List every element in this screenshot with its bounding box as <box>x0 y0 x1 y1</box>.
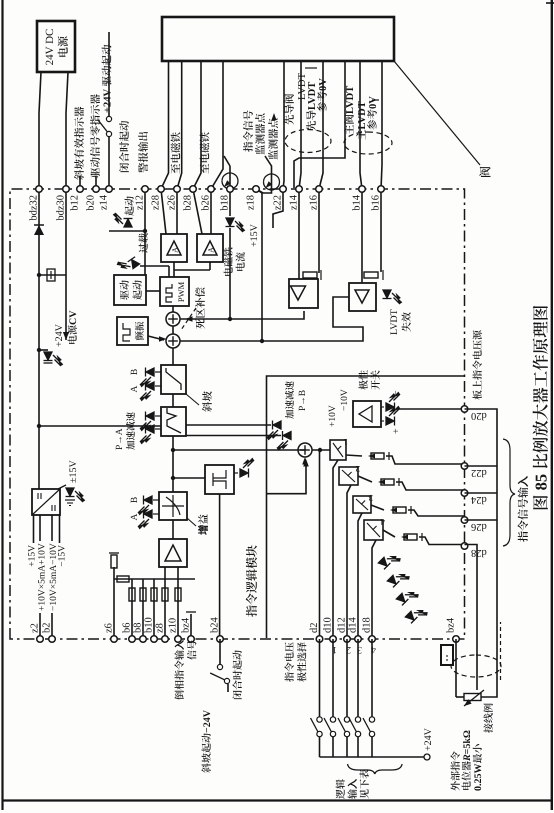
svg-text:b2: b2 <box>42 623 53 634</box>
svg-text:电源: 电源 <box>55 36 71 58</box>
terminal z14 (right edge) <box>106 186 113 193</box>
polarity summing junction <box>298 443 312 457</box>
svg-text:d24: d24 <box>470 494 487 505</box>
wire z12 to drive start box <box>144 189 146 275</box>
ramp label leader <box>186 394 199 405</box>
svg-text:b18: b18 <box>220 195 231 211</box>
logic input brace <box>347 764 402 774</box>
wire b26 to valve <box>211 61 223 189</box>
terminal b10 (left edge) <box>151 636 158 643</box>
svg-text:+24V: +24V <box>423 727 434 751</box>
PWM box <box>160 277 189 306</box>
+15V output stub <box>33 515 35 543</box>
wire z14 pilot LVDT to valve <box>299 61 301 189</box>
tick mark on pilot LVDT label wire <box>305 67 317 69</box>
terminal z10 (left edge) <box>175 636 182 643</box>
main LVDT input row b14 <box>361 189 363 283</box>
pot cable screen ellipse <box>451 655 501 677</box>
terminal bz4 (left edge) <box>453 636 460 643</box>
logic input switch row 1 <box>332 639 334 717</box>
-15V output stub <box>59 515 61 543</box>
terminal b14 (right edge) <box>359 186 366 193</box>
terminal b20 (right edge) <box>93 186 100 193</box>
op-amp 1 output network to d22 <box>346 455 362 456</box>
svg-text:z6: z6 <box>104 623 115 633</box>
z10 feedback row <box>177 567 179 639</box>
link amp to gain <box>172 520 174 539</box>
svg-text:颤振: 颤振 <box>132 321 146 341</box>
main feedback line to summer2 <box>180 297 363 341</box>
svg-text:指令逻辑模块: 指令逻辑模块 <box>243 545 260 617</box>
-10V output to b2 <box>51 613 53 639</box>
terminal bdz30 (right edge) <box>63 186 70 193</box>
svg-text:A: A <box>130 513 140 520</box>
logic input switch row 4 <box>371 639 373 717</box>
LVDT failure LED <box>383 290 402 304</box>
summing junction 2 (main loop) <box>166 334 180 348</box>
terminal b18 (right edge) <box>227 186 234 193</box>
status LED row 3 <box>396 586 419 609</box>
svg-text:z22: z22 <box>273 195 284 210</box>
status LED row 2 <box>387 568 410 591</box>
wire bdz32 to 24V supply <box>39 72 41 189</box>
svg-text:3: 3 <box>368 493 373 503</box>
terminal d18 (left edge) <box>369 636 376 643</box>
terminal b26 (right edge) <box>208 186 215 193</box>
svg-text:−15V: −15V <box>58 545 68 567</box>
hysteresis output to b24 <box>219 494 221 639</box>
accel-decel box P-A <box>161 407 186 436</box>
wire z28 to driver A <box>161 189 166 234</box>
svg-text:+15V: +15V <box>249 223 260 247</box>
wire b14 main LVDT to valve <box>360 61 362 189</box>
monitor point loop on z18 wire <box>256 156 272 193</box>
wire z22 to valve <box>283 61 284 189</box>
wire b28 to driver B <box>193 189 202 234</box>
svg-text:d14: d14 <box>348 617 359 634</box>
bus series resistor <box>117 576 129 582</box>
logic input switch row 3 <box>357 639 359 717</box>
svg-text:PWM: PWM <box>176 281 186 302</box>
svg-text:bdz32: bdz32 <box>29 195 40 221</box>
svg-text:信号: 信号 <box>184 640 199 660</box>
terminal z22 (right edge) <box>280 186 287 193</box>
svg-text:闭合时起动: 闭合时起动 <box>229 650 244 700</box>
terminal b28 (right edge) <box>190 186 197 193</box>
on-board reference source box <box>353 401 381 427</box>
+24V drop to accel-decel box <box>37 424 41 428</box>
svg-text:阀: 阀 <box>477 166 494 178</box>
svg-text:b6: b6 <box>122 623 133 634</box>
hysteresis box <box>205 465 234 494</box>
svg-text:参考0V: 参考0V <box>315 78 330 112</box>
label ramp valid indicator for b12 <box>79 176 81 189</box>
24V DC power supply box <box>37 21 75 72</box>
terminal b6 (left edge) <box>129 636 136 643</box>
svg-text:z2: z2 <box>30 623 41 633</box>
svg-text:+15V: +15V <box>28 545 38 567</box>
+24V terminal circle <box>424 754 430 760</box>
status LED row 4 <box>405 604 428 627</box>
P-B LED 1 <box>268 421 282 440</box>
svg-text:接线例: 接线例 <box>480 703 495 733</box>
svg-text:d22: d22 <box>471 467 487 478</box>
+24V rail from bdz32 <box>38 189 40 489</box>
page frame corner stub bottom-right <box>546 2 554 4</box>
terminal z18 (right edge) <box>253 186 260 193</box>
svg-text:bz4: bz4 <box>181 617 192 633</box>
svg-text:4: 4 <box>380 517 385 527</box>
svg-text:参考0V: 参考0V <box>365 96 380 130</box>
external bus wire to d20 d22 d24 d26 <box>465 409 498 697</box>
ramp box 斜坡 <box>161 365 186 394</box>
svg-text:d26: d26 <box>471 521 487 532</box>
b10 input resistor row <box>153 579 155 639</box>
terminal b2 (left edge) <box>49 636 56 643</box>
reference LEDs + - <box>381 420 384 422</box>
terminal d10 (left edge) <box>330 636 337 643</box>
label drive signal zero indicator for b20 <box>95 176 97 189</box>
terminal b16 (right edge) <box>378 186 385 193</box>
svg-text:b16: b16 <box>371 195 382 211</box>
P-B indicator lines <box>186 424 271 426</box>
wire b28 to valve <box>193 61 201 189</box>
pilot feedback line to summer1 <box>180 311 304 319</box>
overload LED branch <box>140 265 169 267</box>
terminal b8 (left edge) <box>140 636 147 643</box>
link ramp box to summer2 <box>172 348 174 365</box>
svg-text:B: B <box>130 497 140 503</box>
svg-text:+24V 驱动起动: +24V 驱动起动 <box>100 44 115 113</box>
start-when-closed switch on b24 <box>219 639 221 665</box>
svg-text:至电磁铁: 至电磁铁 <box>198 132 213 174</box>
status LED row 1 <box>378 550 401 573</box>
DC/DC converter <box>32 489 60 515</box>
op-amp input line d12 <box>347 485 351 639</box>
terminal z8 (left edge) <box>162 636 169 643</box>
svg-text:1: 1 <box>344 437 349 447</box>
svg-text:板上指令电压源: 板上指令电压源 <box>469 330 484 400</box>
reference wire to d20 <box>398 408 465 410</box>
svg-text:P→B: P→B <box>298 390 308 411</box>
main LVDT cable screen <box>344 132 392 154</box>
svg-text:见下表: 见下表 <box>356 769 371 799</box>
svg-text:开关: 开关 <box>367 370 382 390</box>
wire bdz30 power CV <box>65 189 67 340</box>
svg-text:−10V: −10V <box>340 389 350 411</box>
terminal bz4 (left edge) <box>188 636 195 643</box>
svg-text:d2: d2 <box>309 623 320 634</box>
page frame top edge <box>1 0 3 810</box>
tick mark on main LVDT label wire <box>372 99 379 101</box>
svg-text:b12: b12 <box>70 195 81 211</box>
start LED branch <box>143 229 147 233</box>
drop d26 to external bus <box>465 519 498 521</box>
wire bdz30 to 24V supply <box>66 72 68 189</box>
pot wiper wire to d28 <box>465 545 478 691</box>
op-amp input line d18 <box>372 540 376 639</box>
page frame left edge <box>3 799 552 801</box>
svg-text:±15V: ±15V <box>68 460 79 483</box>
svg-text:bz4: bz4 <box>446 617 457 633</box>
accel box LEDs <box>155 428 161 430</box>
svg-text:d28: d28 <box>471 547 487 558</box>
svg-text:b28: b28 <box>183 195 194 211</box>
svg-text:z26: z26 <box>167 195 178 210</box>
svg-text:d20: d20 <box>471 410 487 421</box>
gain box 增益 <box>159 492 187 520</box>
main LVDT demodulator box <box>349 283 376 311</box>
P-B LED 2 <box>278 431 292 450</box>
op-amp 4 output network to d28 <box>383 530 395 537</box>
svg-text:A: A <box>130 385 140 392</box>
terminal d22 (bottom edge) <box>461 463 468 470</box>
svg-text:b26: b26 <box>201 195 212 211</box>
terminal bdz32 (right edge) <box>36 186 43 193</box>
terminal z16 (right edge) <box>316 186 323 193</box>
link dither to summer2 <box>148 336 164 340</box>
terminal d24 (bottom edge) <box>461 490 468 497</box>
svg-text:z28: z28 <box>151 195 162 210</box>
wire z26 to driver A <box>176 189 178 234</box>
svg-text:d12: d12 <box>337 617 348 633</box>
svg-text:图 85 比例放大器工作原理图: 图 85 比例放大器工作原理图 <box>528 305 552 511</box>
svg-text:z12: z12 <box>135 195 146 210</box>
pilot LVDT load resistor <box>318 189 320 273</box>
svg-text:A: A <box>207 247 216 253</box>
svg-text:+10V: +10V <box>328 405 338 427</box>
diode on +24V rail <box>34 225 44 235</box>
wire z28 to valve <box>161 61 169 189</box>
monitor point loop on b18 wire <box>229 166 231 189</box>
z6 row with resistor and stub <box>113 567 115 639</box>
command input op-amp 2 <box>339 467 358 485</box>
bz4 stub with bar <box>190 614 192 639</box>
wire z16 pilot LVDT 0V to valve <box>319 61 323 189</box>
svg-text:B: B <box>130 369 140 375</box>
svg-text:z16: z16 <box>309 195 320 210</box>
logic input switch row 0 <box>319 639 321 717</box>
solenoid driver box B (b28 b26) <box>197 234 223 262</box>
command input op-amp 3 <box>353 496 371 513</box>
±15V indicator LED under DC/DC <box>58 485 66 489</box>
branch to polarity summer <box>173 449 305 451</box>
svg-text:加速减速: 加速减速 <box>123 411 137 450</box>
link polarity summer to op-amp 1 <box>312 449 330 451</box>
link summer2 to summer1 <box>172 326 174 334</box>
link drive start to PWM <box>146 290 160 292</box>
link accel to ramp box <box>172 394 174 407</box>
+24V drive start switch on z14 wire <box>108 136 110 189</box>
terminal d14 (left edge) <box>355 636 362 643</box>
terminal b12 (right edge) <box>77 186 84 193</box>
svg-text:d10: d10 <box>323 617 334 633</box>
terminal z6 (left edge) <box>111 636 118 643</box>
drop d22 to external bus <box>465 465 498 467</box>
+24V switch bus <box>320 756 428 758</box>
svg-text:至电磁铁: 至电磁铁 <box>169 132 184 174</box>
svg-text:+: + <box>391 428 402 434</box>
terminal z12 (right edge) <box>142 186 149 193</box>
dither box 颤振 <box>117 317 148 345</box>
terminal d26 (bottom edge) <box>461 517 468 524</box>
pilot LVDT input row z14 <box>298 189 300 279</box>
terminal b24 (left edge) <box>217 636 224 643</box>
svg-text:z14: z14 <box>289 194 300 210</box>
link summer1 to PWM <box>172 306 174 312</box>
logic input switch row 2 <box>346 639 348 717</box>
solenoid driver box A (z28 z26) <box>161 234 187 262</box>
op-amp 2 output network to d24 <box>358 476 372 482</box>
terminal z2 (left edge) <box>37 636 44 643</box>
page frame bottom edge <box>551 0 553 810</box>
external pot connector box <box>441 645 453 665</box>
svg-text:z14: z14 <box>99 194 110 210</box>
svg-text:斜坡有效指示器: 斜坡有效指示器 <box>72 106 87 180</box>
wire b26 to driver B <box>210 189 212 234</box>
terminal d28 (bottom edge) <box>461 543 468 550</box>
svg-text:2: 2 <box>356 464 361 474</box>
svg-text:斜坡起动−24V: 斜坡起动−24V <box>198 709 213 773</box>
svg-text:z10: z10 <box>168 618 179 633</box>
b8 input resistor row <box>142 579 144 639</box>
svg-text:bdz30: bdz30 <box>56 195 67 221</box>
op-amp 3 output network to d26 <box>371 505 384 510</box>
wire pilot reference return bent <box>294 61 345 188</box>
svg-text:电流: 电流 <box>232 252 247 272</box>
svg-text:0.25W最小: 0.25W最小 <box>469 744 484 792</box>
z8 input resistor row <box>164 567 166 639</box>
bz4 wire to pot top <box>455 639 457 697</box>
svg-text:b8: b8 <box>133 623 144 634</box>
command rail junctions <box>172 436 174 492</box>
drive start box 驱动起动 <box>114 275 146 305</box>
input amplifier box <box>159 539 187 567</box>
svg-text:监测器点: 监测器点 <box>266 118 281 160</box>
summing bus <box>114 578 195 580</box>
pilot LVDT demodulator box <box>289 279 318 308</box>
svg-text:起动: 起动 <box>129 280 144 300</box>
svg-text:加速减速: 加速减速 <box>282 380 296 419</box>
dither monitor wire z18 <box>261 193 263 341</box>
terminal d2 (left edge) <box>316 636 323 643</box>
main LVDT load resistor <box>380 189 382 272</box>
+15V supply stub to z22 <box>273 189 283 228</box>
command monitor wire b18 <box>229 228 231 319</box>
wire b16 main LVDT 0V to valve <box>381 61 382 189</box>
pilot LVDT cable screen <box>285 130 331 153</box>
branch to hysteresis box <box>173 477 205 479</box>
gain label leader <box>187 518 196 526</box>
+10V output to z2 <box>39 613 41 639</box>
gain box LEDs <box>153 513 159 515</box>
svg-text:−: − <box>391 390 402 396</box>
potentiometer <box>464 694 481 701</box>
command input op-amp 4 <box>364 520 383 540</box>
b6 input resistor row <box>131 579 133 639</box>
+24V indicator LED on rail <box>37 348 41 352</box>
terminal d12 (left edge) <box>344 636 351 643</box>
terminal z14 (right edge) <box>296 186 303 193</box>
svg-text:失效: 失效 <box>398 312 413 332</box>
command signal input brace <box>503 439 515 546</box>
op-amp input line d14 <box>358 513 362 639</box>
svg-text:闭合时起动: 闭合时起动 <box>117 120 132 173</box>
svg-text:b20: b20 <box>86 195 97 211</box>
op-amp input line d10 <box>333 460 338 639</box>
svg-text:b24: b24 <box>210 617 221 634</box>
solenoid current LED inline on b18 <box>226 218 245 232</box>
fuse link bdz32 to bdz30 <box>37 273 41 277</box>
svg-text:+10V×5mA+10V: +10V×5mA+10V <box>38 543 48 611</box>
valve connector box <box>162 17 394 61</box>
amplifier board boundary (chain line) <box>10 189 465 639</box>
drop d24 to external bus <box>465 492 498 494</box>
board command voltage feed to polarity summer <box>267 376 465 638</box>
svg-text:增益: 增益 <box>196 514 211 535</box>
ramp box LEDs A B <box>155 385 161 387</box>
svg-text:b10: b10 <box>144 617 155 633</box>
svg-text:b14: b14 <box>352 194 363 211</box>
svg-text:电源CV: 电源CV <box>64 310 79 345</box>
svg-text:z8: z8 <box>155 623 166 633</box>
cable screen drain dashed <box>500 622 502 680</box>
dead zone leader dashes <box>181 308 196 330</box>
summing junction 1 (pilot loop) <box>166 312 180 326</box>
svg-text:极性选择: 极性选择 <box>294 642 309 682</box>
svg-text:A: A <box>171 247 180 253</box>
svg-text:z18: z18 <box>246 195 257 210</box>
command input op-amp 1 <box>330 440 346 460</box>
svg-text:先导阀: 先导阀 <box>282 94 297 126</box>
terminal z28 (right edge) <box>158 186 165 193</box>
wire z26 to valve <box>177 61 182 189</box>
link PWM to drivers <box>173 262 175 270</box>
leader line to valve label <box>394 61 480 165</box>
svg-text:斜坡: 斜坡 <box>200 391 215 412</box>
terminal z26 (right edge) <box>174 186 181 193</box>
svg-text:警报输出: 警报输出 <box>136 131 151 173</box>
svg-text:d18: d18 <box>362 617 373 633</box>
svg-text:过载: 过载 <box>135 233 150 253</box>
hysteresis LED <box>234 472 238 474</box>
terminal d20 (bottom edge) <box>461 406 468 413</box>
svg-text:死区补偿: 死区补偿 <box>193 287 208 329</box>
command polarity line from d2 <box>319 450 321 639</box>
